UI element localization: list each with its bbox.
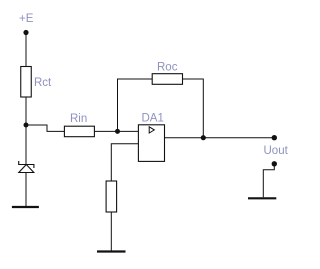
wire return terminal to ground: [263, 164, 274, 197]
terminal +E: [23, 30, 28, 35]
wire Rct to node A: [25, 97, 27, 125]
svg-text:+E: +E: [19, 13, 34, 25]
ground right: [248, 197, 276, 199]
terminal Uout return: [272, 161, 277, 166]
label Uout: [264, 145, 289, 157]
label Rin: [70, 113, 87, 125]
resistor Roc: [152, 74, 182, 85]
ground left: [12, 206, 39, 208]
node A junction: [24, 123, 29, 128]
wire op-amp lower input to R1: [111, 144, 138, 181]
wire +E to Rct: [25, 33, 27, 67]
resistor Rin: [64, 126, 94, 137]
resistor R1 vertical: [106, 181, 117, 212]
svg-text:Rct: Rct: [34, 77, 52, 89]
label Rct: [34, 77, 52, 89]
node C output junction: [201, 135, 206, 140]
label DA1: [142, 113, 164, 125]
svg-text:Rin: Rin: [70, 113, 87, 125]
resistor Rct: [21, 67, 32, 98]
diode VD1 zener cathode bar: [19, 161, 34, 168]
wire R1 to ground: [110, 212, 112, 251]
wire op-amp output to Uout terminal: [165, 137, 275, 139]
svg-text:Uout: Uout: [264, 145, 289, 157]
op-amp DA1 triangle mark: [149, 127, 154, 133]
label Roc: [157, 62, 178, 74]
wire Rin to op-amp input: [94, 130, 138, 132]
node +E label: [19, 13, 34, 25]
svg-text:DA1: DA1: [142, 113, 164, 125]
wire diode VD1 to ground: [25, 173, 27, 207]
wire Roc to output node: [183, 79, 204, 138]
diode VD1 triangle: [19, 165, 34, 173]
wire node A to diode VD1: [25, 125, 27, 165]
terminal Uout top: [272, 135, 277, 140]
node B junction (inverting input): [115, 129, 120, 134]
op-amp DA1 body: [138, 125, 164, 162]
wire node A to Rin: [26, 125, 64, 131]
svg-text:Roc: Roc: [157, 62, 178, 74]
wire node B up to Roc: [118, 79, 153, 131]
ground middle: [97, 250, 126, 252]
